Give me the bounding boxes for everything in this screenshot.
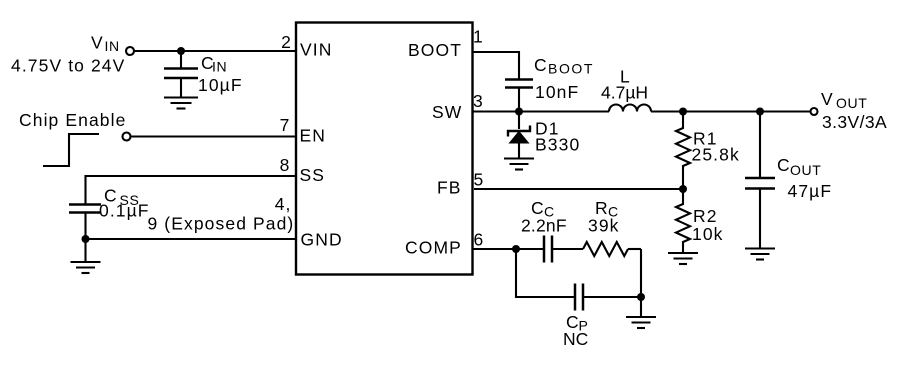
svg-text:0.1µF: 0.1µF [99, 201, 150, 221]
wire [583, 296, 641, 298]
svg-text:8: 8 [280, 155, 291, 175]
wire [518, 143, 520, 159]
capacitor CIN [164, 69, 198, 79]
ground [504, 159, 534, 170]
wire [474, 188, 683, 190]
svg-text:R2: R2 [693, 206, 718, 226]
wire [134, 50, 296, 52]
node VIN terminal [126, 47, 134, 55]
node junction CIN [177, 47, 185, 55]
svg-text:V: V [91, 33, 104, 53]
svg-text:EN: EN [300, 126, 327, 146]
inductor L [609, 105, 651, 112]
node junction R1 top [679, 108, 687, 116]
svg-text:COMP: COMP [405, 238, 462, 258]
resistor RC [583, 242, 628, 256]
node EN terminal [123, 133, 131, 141]
wire [131, 135, 296, 137]
svg-text:4,: 4, [275, 194, 292, 214]
svg-text:7: 7 [280, 115, 291, 135]
svg-text:39k: 39k [588, 216, 620, 236]
wire [43, 134, 99, 166]
svg-text:SS: SS [300, 165, 326, 185]
wire [518, 88, 520, 112]
svg-text:FB: FB [437, 178, 462, 198]
ground [164, 98, 198, 109]
svg-text:4.75V to 24V: 4.75V to 24V [11, 56, 125, 76]
node junction GND [82, 235, 90, 243]
capacitor CSS [69, 205, 101, 213]
svg-text:VIN: VIN [300, 40, 332, 60]
wire [651, 110, 811, 112]
node junction SW [515, 108, 523, 116]
IC U1 regulator body [296, 23, 473, 275]
svg-text:2.2nF: 2.2nF [521, 216, 567, 236]
wire [640, 249, 642, 297]
svg-text:9 (Exposed Pad): 9 (Exposed Pad) [148, 214, 295, 234]
svg-text:1: 1 [473, 27, 484, 47]
svg-text:6: 6 [474, 230, 485, 250]
svg-text:25.8k: 25.8k [692, 145, 740, 165]
svg-text:C: C [534, 55, 548, 75]
svg-text:5: 5 [474, 170, 485, 190]
node junction FB [679, 185, 687, 193]
svg-text:SW: SW [432, 102, 462, 122]
wire [628, 248, 641, 250]
svg-text:IN: IN [105, 38, 120, 54]
wire [552, 248, 583, 250]
wire [759, 189, 761, 249]
node junction COUT [756, 108, 764, 116]
svg-text:GND: GND [301, 230, 343, 250]
node junction CP right [637, 293, 645, 301]
svg-text:OUT: OUT [836, 95, 867, 111]
svg-text:V: V [821, 89, 834, 109]
ground [71, 239, 101, 273]
svg-text:IN: IN [212, 59, 227, 75]
wire [518, 112, 520, 130]
wire [86, 176, 297, 204]
ground [668, 253, 698, 264]
svg-text:3: 3 [473, 91, 484, 111]
svg-text:10µF: 10µF [198, 75, 243, 95]
capacitor CBOOT [505, 80, 533, 88]
svg-text:47µF: 47µF [788, 181, 833, 201]
diode D1 [508, 126, 530, 144]
svg-text:4.7µH: 4.7µH [601, 83, 648, 103]
svg-text:Chip Enable: Chip Enable [19, 110, 126, 130]
svg-text:3.3V/3A: 3.3V/3A [822, 112, 887, 132]
node VOUT terminal [811, 108, 818, 115]
wire [759, 112, 761, 179]
wire [473, 52, 519, 80]
wire [84, 213, 86, 239]
wire [473, 248, 544, 250]
capacitor CC [544, 236, 552, 263]
wire [86, 238, 297, 240]
svg-text:10nF: 10nF [535, 82, 579, 102]
wire [180, 51, 182, 69]
wire [640, 297, 642, 317]
svg-text:BOOT: BOOT [548, 61, 594, 77]
ground [745, 249, 775, 260]
capacitor CP [575, 284, 583, 311]
ground [626, 317, 656, 328]
svg-text:NC: NC [563, 329, 588, 349]
svg-text:OUT: OUT [790, 162, 821, 178]
wire [473, 110, 609, 112]
resistor R1 [676, 112, 690, 190]
svg-text:C: C [777, 155, 791, 175]
svg-text:BOOT: BOOT [408, 40, 462, 60]
svg-text:B330: B330 [535, 135, 580, 155]
svg-text:2: 2 [281, 32, 292, 52]
capacitor COUT [745, 178, 775, 189]
wire [516, 249, 575, 297]
resistor R2 [676, 189, 690, 253]
node junction COMP [512, 245, 520, 253]
svg-text:10k: 10k [692, 224, 724, 244]
wire [180, 78, 182, 98]
